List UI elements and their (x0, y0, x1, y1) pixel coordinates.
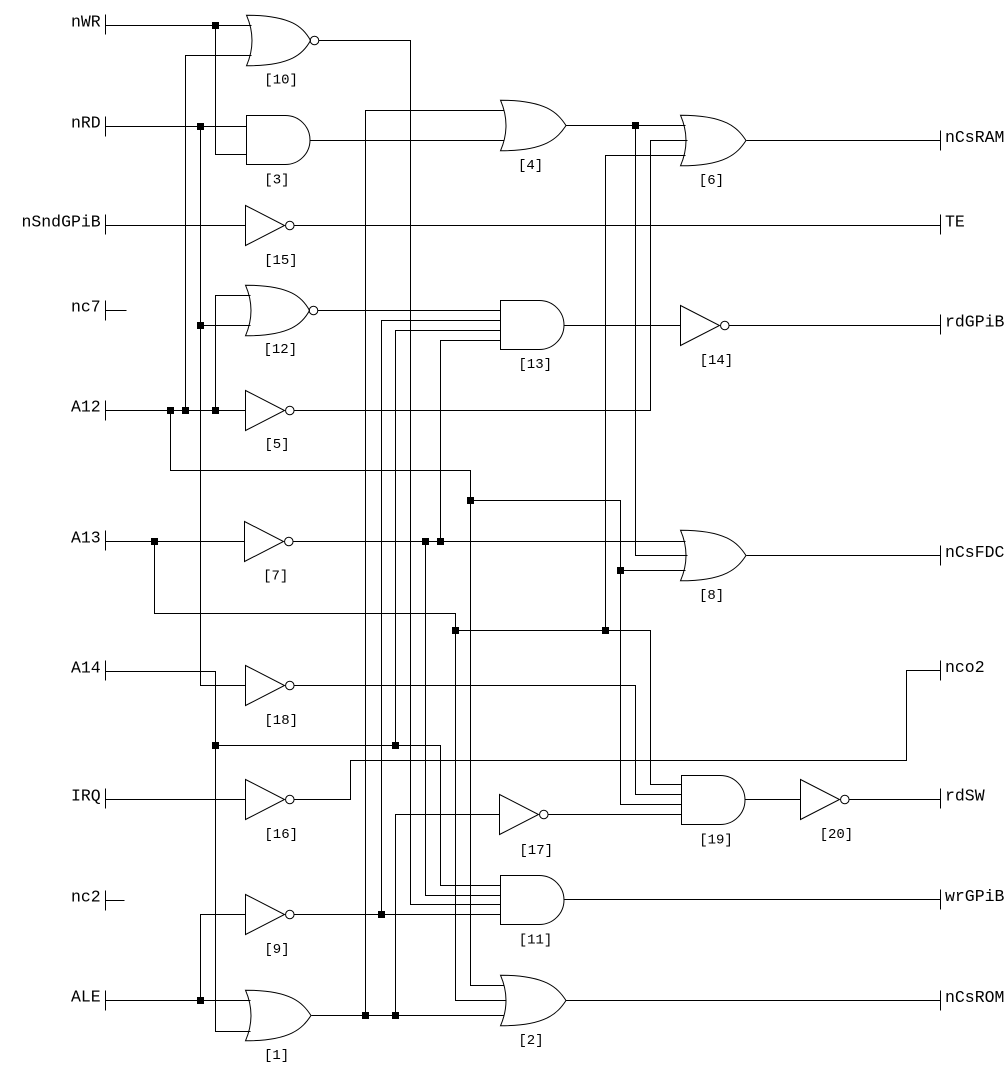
junction A13 / net-b riser (151, 538, 158, 545)
wire U14 output to rdGPiB (730, 325, 941, 327)
wire U4 output to U6 input 1 (566, 125, 686, 127)
output pin rdGPiB (940, 315, 942, 335)
wire tap to U12 input 2 (201, 325, 251, 327)
input pin A12 (105, 401, 107, 421)
junction net-a / y500 branch (467, 497, 474, 504)
svg-text:[2]: [2] (518, 1033, 543, 1049)
wire U16 output to nco2 (295, 671, 941, 800)
svg-text:ALE: ALE (71, 988, 101, 1007)
svg-text:[19]: [19] (699, 833, 733, 849)
output pin TE (940, 215, 942, 235)
wire y500 branch to U19 input 3 (471, 501, 682, 805)
svg-text:wrGPiB: wrGPiB (945, 887, 1005, 906)
OR gate U4 (501, 100, 567, 151)
svg-text:nRD: nRD (71, 114, 101, 133)
wire U9 output to U11 input 4 (295, 914, 501, 916)
svg-text:[6]: [6] (699, 173, 724, 189)
junction ALE / U9 riser (197, 997, 204, 1004)
svg-text:nCsRAM: nCsRAM (945, 128, 1004, 147)
wire U2 output to nCsROM (566, 1000, 941, 1002)
wire nc2 stub (106, 900, 125, 902)
wire riser to U10 input 2 (186, 56, 252, 411)
wire y630 branch to U19 input 1 (456, 631, 682, 785)
wire nc7 stub (106, 310, 127, 312)
junction A12 / U10-in2 riser (182, 407, 189, 414)
wire U20 output to rdSW (850, 799, 941, 801)
AND gate U3 (247, 116, 310, 165)
inverter U7 (245, 522, 294, 562)
wire IRQ to U16 input (106, 799, 246, 801)
junction U7 output / U13-in4 riser (437, 538, 444, 545)
input pin A14 (105, 661, 107, 681)
svg-text:nc7: nc7 (71, 298, 101, 317)
svg-text:[20]: [20] (820, 827, 854, 843)
NOR gate U10 (247, 15, 319, 66)
svg-text:TE: TE (945, 213, 965, 232)
svg-text:nCsFDC: nCsFDC (945, 543, 1005, 562)
wire tap to U8 input 3 (621, 570, 686, 572)
wire U8 output to nCsFDC (747, 555, 941, 557)
wire y745 to U11 input 1 (216, 746, 501, 886)
wire net-b A13 riser to U2 input 2 (155, 542, 507, 1001)
input pin nRD (105, 117, 107, 137)
wire U11 output to wrGPiB (565, 899, 941, 901)
output pin nco2 (940, 661, 942, 681)
output pin wrGPiB (940, 890, 942, 910)
inverter U14 (681, 306, 730, 346)
output pin nCsROM (940, 991, 942, 1011)
output pin nCsRAM (940, 131, 942, 151)
NOR gate U12 (246, 285, 318, 336)
input pin A13 (105, 531, 107, 551)
svg-text:nCsROM: nCsROM (945, 988, 1004, 1007)
wire U17 input from U1 output riser (396, 815, 500, 1016)
svg-text:[5]: [5] (264, 437, 289, 453)
wire U6 output to nCsRAM (747, 140, 941, 142)
junction nRD / riser (197, 123, 204, 130)
svg-text:[1]: [1] (264, 1048, 289, 1064)
wire U17 output to U19 input 4 (549, 814, 682, 816)
svg-text:nWR: nWR (71, 13, 101, 32)
inverter U16 (246, 780, 295, 820)
inverter U17 (500, 795, 549, 835)
wire U15 output to TE (295, 225, 941, 227)
wire U13 input 2 from bus (382, 321, 501, 915)
wire U11 input 2 from bus (426, 542, 501, 896)
svg-text:[3]: [3] (264, 173, 289, 189)
svg-text:rdSW: rdSW (945, 787, 985, 806)
wire riser to U6 input 3 (606, 156, 686, 631)
wire U13 input 3 from bus (396, 331, 501, 746)
junction A12 / U12-in1 riser (212, 407, 219, 414)
junction A14 riser / y745 (212, 742, 219, 749)
output pin nCsFDC (940, 546, 942, 566)
svg-text:nSndGPiB: nSndGPiB (21, 213, 100, 232)
svg-text:[16]: [16] (264, 827, 298, 843)
wire nRD riser to U18 input (201, 127, 246, 686)
wire A12 to U5 input (106, 410, 246, 412)
svg-text:IRQ: IRQ (71, 787, 101, 806)
junction U1 output / U17 riser (392, 1012, 399, 1019)
junction nWR / riser (212, 22, 219, 29)
junction U4 output / U8-in2 riser (632, 122, 639, 129)
svg-text:A13: A13 (71, 529, 101, 548)
junction U1 output / U4-in1 riser (362, 1012, 369, 1019)
wire nWR riser to U3 input 2 (216, 26, 247, 155)
wire U10 output to U11 input 3 (319, 41, 501, 905)
svg-text:nc2: nc2 (71, 888, 101, 907)
wire A14 riser to U1 input 2 (106, 672, 251, 1032)
inverter U15 (246, 206, 295, 246)
input pin nc2 (105, 891, 107, 911)
wire net-a A12 riser to U2 input 1 (171, 411, 505, 986)
junction U7 output / U11-in2 riser (422, 538, 429, 545)
junction y630 / U6-in3 riser (602, 627, 609, 634)
wire nSndGPiB to U15 input (106, 225, 246, 227)
svg-text:[10]: [10] (264, 73, 298, 89)
AND gate U13 (501, 301, 565, 350)
input pin nc7 (105, 301, 107, 321)
svg-text:A14: A14 (71, 659, 101, 678)
svg-text:[12]: [12] (264, 342, 298, 358)
junction U9 output / U13-in2 riser (378, 911, 385, 918)
OR gate U8 (681, 530, 747, 581)
OR gate U2 (501, 975, 567, 1026)
svg-text:[13]: [13] (518, 357, 552, 373)
svg-text:A12: A12 (71, 398, 101, 417)
svg-text:[15]: [15] (264, 253, 298, 269)
wire U12 output to U13 input 1 (318, 310, 501, 312)
wire U13 output to U14 input (565, 325, 681, 327)
wire A13 to U7 input (106, 541, 245, 543)
svg-text:nco2: nco2 (945, 658, 985, 677)
wire U7 output to U8 input 1 (294, 541, 686, 543)
wire U13 input 4 from bus (441, 341, 501, 542)
wire U5 output to U6 input 2 (295, 141, 688, 411)
input pin nWR (105, 15, 107, 35)
AND gate U19 (682, 776, 746, 825)
wire nRD to U3 input 1 (106, 126, 247, 128)
svg-text:[17]: [17] (519, 843, 553, 859)
wire U3 output to U4 input 2 (310, 140, 505, 142)
svg-text:[4]: [4] (518, 158, 543, 174)
OR gate U6 (681, 115, 747, 166)
inverter U18 (246, 666, 295, 706)
inverter U20 (801, 780, 850, 820)
input pin ALE (105, 991, 107, 1011)
junction y500 / U8-in3 tap (617, 567, 624, 574)
svg-text:[18]: [18] (264, 713, 298, 729)
input pin nSndGPiB (105, 215, 107, 235)
junction net-b / y630 branch (452, 627, 459, 634)
svg-text:rdGPiB: rdGPiB (945, 313, 1005, 332)
inverter U5 (246, 391, 295, 431)
svg-text:[14]: [14] (700, 353, 734, 369)
svg-text:[8]: [8] (699, 588, 724, 604)
wire ALE to U1 input 1 (106, 1000, 251, 1002)
wire U18 output to U19 input 2 (295, 686, 682, 795)
wire riser A12 to U12 input 1 (216, 296, 251, 411)
wire U9 input from ALE riser (201, 915, 246, 1001)
input pin IRQ (105, 789, 107, 809)
junction U12 input 2 tap (197, 322, 204, 329)
AND gate U11 (501, 876, 565, 925)
svg-text:[11]: [11] (519, 933, 553, 949)
inverter U9 (246, 895, 295, 935)
wire riser U4 to U8 input 2 (636, 126, 688, 556)
wire U19 output to U20 input (745, 799, 801, 801)
wire nWR to U10 input 1 (106, 25, 252, 27)
output pin rdSW (940, 789, 942, 809)
junction A12 / net-a riser (167, 407, 174, 414)
svg-text:[9]: [9] (264, 942, 289, 958)
junction y745 / U13-in3 riser (392, 742, 399, 749)
wire U1 output to U2 input 3 (312, 1015, 505, 1017)
OR gate U1 (246, 990, 312, 1041)
svg-text:[7]: [7] (263, 569, 288, 585)
wire U4 input 1 from bus (366, 111, 505, 1016)
